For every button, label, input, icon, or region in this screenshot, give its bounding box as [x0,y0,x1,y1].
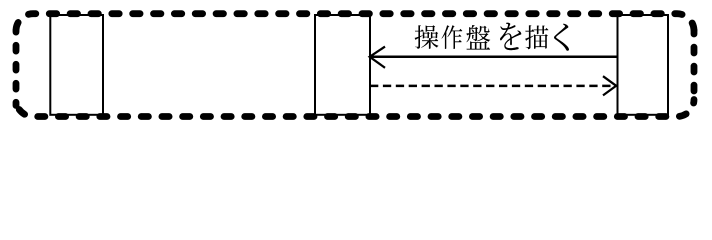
return arrow (dashed, left-to-right) wire [370,85,611,88]
dashed frame right edge [691,31,698,100]
open arrowhead (left) [370,47,385,68]
dashed frame top edge [16,14,694,31]
dashed frame left edge [13,31,20,106]
message arrow (solid, right-to-left) wire [370,56,617,59]
lifeline activation bar (left) [50,15,103,115]
open arrowhead (right) [603,76,616,95]
lifeline activation bar (middle) [315,15,370,115]
label 操作盤を描く [415,23,569,51]
dashed frame bottom edge [16,100,694,117]
lifeline activation bar (right) [618,15,669,115]
dashed frame (system boundary) [16,14,694,117]
